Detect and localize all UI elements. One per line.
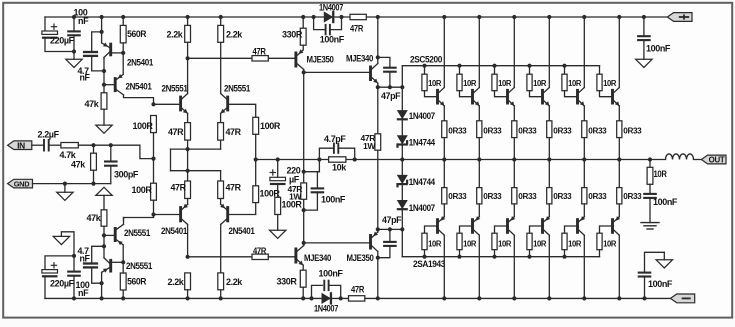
svg-text:47R: 47R — [226, 183, 242, 193]
ground symbol (above R18, points up) — [96, 187, 112, 195]
svg-text:2N5401: 2N5401 — [127, 57, 153, 67]
resistor R20 100R (feedback lower) — [253, 160, 281, 203]
ground symbol (bottom left, jogged) — [53, 232, 74, 256]
svg-text:1N4007: 1N4007 — [409, 111, 435, 121]
svg-text:2N5551: 2N5551 — [126, 261, 152, 271]
wire Q1 emitter to +rail — [100, 15, 104, 34]
wire diff pair tail links — [171, 149, 221, 181]
resistor 0R33 (bottom emitter 3) — [512, 160, 537, 217]
svg-text:OUT: OUT — [709, 156, 725, 165]
svg-text:10R: 10R — [428, 238, 442, 248]
svg-text:0R33: 0R33 — [448, 125, 467, 135]
resistor R5 100R (upper base feed) — [133, 116, 157, 159]
connector GND — [8, 179, 33, 188]
svg-text:0R33: 0R33 — [623, 191, 642, 201]
svg-text:10R: 10R — [428, 78, 442, 88]
svg-text:10R: 10R — [654, 169, 668, 179]
wire Q3 collector to R9 — [188, 57, 252, 59]
svg-text:10k: 10k — [332, 163, 347, 173]
resistor R6 100R (lower base feed) — [124, 159, 157, 221]
resistor R12 47R (diff emitter lower) — [171, 181, 191, 204]
svg-text:IN: IN — [17, 140, 25, 150]
ground symbol (top left) — [66, 52, 82, 68]
resistor 10R (bottom base 5) — [562, 226, 582, 259]
resistor R16 47R (to MJE340 base) — [252, 246, 295, 260]
svg-text:1N4007: 1N4007 — [409, 203, 435, 213]
svg-text:47k: 47k — [85, 99, 100, 109]
node bottom CCS junctions — [102, 233, 125, 264]
resistor R23 47R 1W (VAS) — [288, 183, 307, 202]
capacitor C4 2.2uF input coupling — [38, 130, 60, 152]
svg-text:100nF: 100nF — [646, 43, 671, 53]
transistor Q5 2N5401 (input pair lower) — [154, 204, 189, 257]
svg-text:100nF: 100nF — [319, 269, 344, 279]
resistor 0R33 (top emitter 5) — [582, 121, 607, 162]
resistor 10R (bottom base 3) — [492, 226, 512, 259]
capacitor C5 300pF — [104, 145, 139, 183]
resistor 0R33 (bottom emitter 1) — [442, 160, 467, 217]
svg-text:47R: 47R — [226, 127, 242, 137]
resistor R28 47R (bottom rail) — [349, 285, 365, 301]
node top-left decoupling junctions — [72, 15, 76, 54]
wire 220uF C17 branch — [45, 256, 74, 299]
svg-text:0R33: 0R33 — [588, 125, 607, 135]
svg-text:100R: 100R — [132, 185, 153, 195]
wire bottom output base rail — [402, 256, 599, 258]
ground symbol (input) — [57, 184, 73, 201]
wire MJE340 emitter node — [376, 85, 405, 89]
transistor 2SA1943 output 6 — [611, 216, 621, 300]
resistor R21 100R (feedback shunt) — [275, 185, 303, 230]
svg-text:nF: nF — [78, 16, 89, 26]
svg-text:nF: nF — [78, 288, 89, 298]
capacitor C12 100nF (across D1) — [314, 17, 345, 44]
transistor Q8 2N5551 (bottom current source) — [102, 246, 153, 283]
svg-text:MJE340: MJE340 — [304, 253, 331, 263]
svg-text:220µF: 220µF — [50, 278, 75, 288]
svg-text:47k: 47k — [71, 159, 86, 169]
connector negative supply - — [671, 294, 695, 303]
diode D1 1N4007 (top rail) — [312, 3, 344, 24]
earth ground (zobel) — [641, 223, 659, 229]
resistor R3 4.7k (input series) — [60, 143, 79, 161]
capacitor C3 4.7nF (top CCS) — [78, 32, 105, 83]
svg-text:2N5551: 2N5551 — [224, 83, 250, 93]
svg-text:47R: 47R — [351, 285, 365, 295]
svg-text:10R: 10R — [498, 78, 512, 88]
svg-text:2SA1943: 2SA1943 — [413, 259, 445, 269]
svg-text:0R33: 0R33 — [518, 191, 537, 201]
transistor Q11 MJE340 (driver lower) — [294, 243, 331, 270]
resistor R25 47R 1W (driver emitters) — [361, 87, 381, 229]
wire output / feedback rail — [256, 159, 666, 161]
svg-text:1N4007: 1N4007 — [319, 3, 343, 13]
resistor R24 330R (MJE350 emitter) — [282, 15, 306, 45]
capacitor C9 100nF (across R23) — [304, 160, 346, 211]
wire bias chain vertical — [400, 66, 404, 257]
wire ground line — [33, 182, 111, 186]
svg-text:0R33: 0R33 — [448, 191, 467, 201]
resistor 10R (top base 6) — [597, 66, 617, 97]
wire Q8 emitter to -rail — [100, 281, 104, 300]
wire 220uF C1 branch — [45, 17, 74, 52]
resistor R13 47R (diff emitter lower) — [218, 181, 242, 204]
transistor 2SA1943 output 2 — [471, 216, 481, 300]
svg-text:220µF: 220µF — [50, 36, 75, 46]
svg-text:nF: nF — [80, 73, 91, 83]
resistor R19 100R (feedback upper) — [253, 117, 281, 159]
wire bottom negative supply rail — [45, 297, 671, 299]
resistor 0R33 (top emitter 2) — [477, 121, 502, 162]
svg-text:1N4744: 1N4744 — [409, 137, 435, 147]
svg-text:100nF: 100nF — [653, 197, 678, 207]
svg-text:560R: 560R — [127, 29, 147, 39]
connector positive supply + — [667, 13, 692, 22]
resistor R15 2.2k (load lower) — [218, 273, 244, 301]
svg-text:47R: 47R — [253, 47, 267, 57]
diode D5 1N4744 zener (bias) — [396, 175, 435, 188]
svg-text:560R: 560R — [127, 277, 147, 287]
svg-text:100nF: 100nF — [320, 34, 345, 44]
ground symbol (bottom right) — [656, 252, 672, 268]
capacitor C18 100nF (bottom left) — [67, 256, 90, 299]
svg-text:0R33: 0R33 — [588, 191, 607, 201]
wire C4 to R3 — [50, 144, 61, 146]
node bottom-left decoupling junction — [72, 254, 76, 258]
connector OUT — [701, 155, 726, 165]
capacitor C2 100nF (top left) — [67, 8, 89, 52]
svg-text:1N4007: 1N4007 — [314, 304, 338, 314]
svg-text:0R33: 0R33 — [483, 191, 502, 201]
transistor Q12 MJE350 (driver lower) — [304, 229, 380, 300]
resistor R2 47k (CCS bias) — [85, 93, 107, 125]
svg-text:100nF: 100nF — [648, 279, 673, 289]
capacitor C7 220uF (feedback shunt) — [270, 160, 301, 186]
svg-text:10R: 10R — [603, 78, 617, 88]
resistor 10R (bottom base 2) — [457, 226, 477, 259]
transistor Q9 MJE350 (driver) — [294, 45, 333, 72]
capacitor C16 100nF (bottom right decoupling) — [638, 252, 673, 300]
inductor L1 (output) — [666, 154, 702, 160]
resistor 0R33 (top emitter 6) — [617, 121, 642, 162]
resistor R4 47k (input shunt) — [71, 145, 96, 183]
resistor R14 2.2k (load lower) — [168, 255, 191, 301]
svg-text:0R33: 0R33 — [553, 125, 572, 135]
svg-text:MJE350: MJE350 — [347, 253, 374, 263]
transistor 2SC5200 output 2 — [471, 15, 481, 123]
diode D3 1N4007 (bias) — [397, 110, 435, 121]
resistor R1 560R — [120, 15, 147, 53]
svg-text:2N5551: 2N5551 — [124, 228, 150, 238]
resistor 0R33 (bottom emitter 2) — [477, 160, 502, 217]
svg-text:2N5401: 2N5401 — [229, 226, 255, 236]
resistor R10 47R (diff emitter) — [168, 123, 191, 181]
wire IN to C4 — [32, 144, 43, 146]
resistor 0R33 (top emitter 4) — [547, 121, 572, 162]
diode D4 1N4744 zener (bias) — [396, 135, 435, 147]
svg-text:10R: 10R — [498, 238, 512, 248]
transistor 2SA1943 output 3 — [506, 216, 516, 300]
svg-text:100R: 100R — [133, 121, 154, 131]
wire Q5 collector to R16 — [188, 256, 252, 258]
resistor 0R33 (bottom emitter 4) — [547, 160, 572, 217]
transistor Q4 2N5551 (input pair) — [221, 42, 256, 122]
resistor 0R33 (bottom emitter 6) — [617, 160, 642, 217]
ground symbol (top right) — [636, 59, 652, 67]
transistor Q1 2N5401 (top current source) — [102, 32, 154, 71]
svg-text:2N5401: 2N5401 — [161, 226, 187, 236]
svg-text:1W: 1W — [363, 141, 376, 151]
svg-text:2.2k: 2.2k — [226, 30, 243, 40]
resistor R7 2.2k (load) — [167, 15, 191, 61]
capacitor C8 4.7pF (across R22) — [319, 134, 354, 160]
transistor 2SC5200 output 3 — [506, 15, 516, 123]
resistor 10R (top base 3) — [492, 64, 512, 97]
ground symbol (feedback shunt) — [270, 230, 286, 238]
diode D6 1N4007 (bias) — [397, 200, 435, 213]
svg-text:4.7pF: 4.7pF — [324, 134, 346, 144]
capacitor C11 47pF (MJE350 lower) — [378, 215, 402, 258]
ground symbol (under R2) — [96, 125, 112, 133]
node junction dots bottom rail — [72, 296, 76, 300]
svg-text:10R: 10R — [603, 238, 617, 248]
transistor 2SC5200 output 5 — [576, 15, 586, 123]
svg-text:MJE350: MJE350 — [307, 54, 334, 64]
resistor 0R33 (bottom emitter 5) — [582, 160, 607, 217]
svg-text:10R: 10R — [533, 238, 547, 248]
transistor Q3 2N5551 (input pair) — [151, 58, 187, 122]
resistor 10R (top base 2) — [457, 64, 477, 97]
transistor Q2 2N5401 (top current source) — [104, 53, 154, 104]
capacitor C10 47pF (MJE340) — [378, 57, 401, 101]
svg-text:0R33: 0R33 — [553, 191, 572, 201]
resistor R26 330R (lower driver) — [277, 270, 307, 300]
transistor 2SA1943 output 4 — [541, 216, 551, 300]
transistor Q7 2N5551 (bottom current source) — [104, 218, 150, 263]
capacitor C1 220uF electrolytic (top left) — [42, 24, 75, 46]
resistor 0R33 (top emitter 3) — [512, 121, 537, 162]
transistor 2SC5200 output 6 — [611, 15, 621, 123]
transistor Q6 2N5401 (input pair lower) — [220, 203, 256, 273]
svg-text:2SC5200: 2SC5200 — [410, 55, 442, 65]
resistor 10R (top base 1) — [422, 64, 442, 97]
resistor R18 47k (bottom CCS bias) — [87, 195, 107, 226]
svg-text:2.2k: 2.2k — [168, 277, 185, 287]
node CCS junctions — [102, 51, 125, 87]
resistor 0R33 (top emitter 1) — [442, 121, 467, 162]
resistor R29 10R (zobel) — [647, 157, 667, 184]
svg-text:47R: 47R — [350, 23, 364, 33]
svg-text:47pF: 47pF — [382, 215, 402, 225]
svg-text:300pF: 300pF — [114, 169, 139, 179]
svg-text:10R: 10R — [463, 78, 477, 88]
svg-text:0R33: 0R33 — [623, 125, 642, 135]
svg-text:0R33: 0R33 — [483, 125, 502, 135]
svg-text:nF: nF — [80, 254, 91, 264]
transistor 2SA1943 output 5 — [576, 216, 586, 300]
resistor R27 47R (top rail) — [350, 14, 366, 33]
svg-text:10R: 10R — [463, 238, 477, 248]
capacitor C6 4.7nF (bottom CCS) — [78, 246, 105, 283]
svg-text:2.2k: 2.2k — [226, 277, 243, 287]
svg-text:47R: 47R — [253, 246, 267, 256]
resistor R8 2.2k (load) — [218, 15, 244, 42]
svg-text:330R: 330R — [277, 277, 298, 287]
svg-text:2.2µF: 2.2µF — [38, 130, 60, 140]
wire input line to base node — [78, 143, 155, 161]
wire MJE350 emitter node lower — [376, 227, 405, 231]
capacitor C13 100nF (across D2) — [312, 269, 344, 299]
capacitor C14 100nF (top right decoupling) — [637, 15, 671, 59]
resistor 10R (top base 5) — [562, 64, 582, 97]
resistor 10R (bottom base 6) — [597, 226, 617, 257]
svg-text:0R33: 0R33 — [518, 125, 537, 135]
resistor R17 560R (bottom) — [120, 262, 147, 300]
svg-text:10R: 10R — [568, 78, 582, 88]
svg-text:1W: 1W — [289, 191, 302, 201]
resistor 10R (top base 4) — [527, 64, 547, 97]
capacitor C17 220uF electrolytic (bottom left) — [42, 262, 75, 288]
svg-text:2.2k: 2.2k — [167, 30, 184, 40]
wire top positive supply rail — [45, 16, 667, 18]
diode D2 1N4007 (bottom rail) — [309, 292, 342, 314]
node junction dots on rails — [254, 157, 357, 161]
svg-text:47pF: 47pF — [381, 91, 401, 101]
svg-text:330R: 330R — [282, 30, 303, 40]
resistor R22 10k (feedback) — [329, 157, 348, 173]
svg-text:2N5401: 2N5401 — [126, 81, 152, 91]
svg-text:47R: 47R — [168, 127, 184, 137]
svg-text:10R: 10R — [568, 238, 582, 248]
svg-text:2N5551: 2N5551 — [162, 83, 188, 93]
wire top output base rail — [402, 65, 599, 67]
svg-text:1N4744: 1N4744 — [409, 177, 435, 187]
transistor 2SC5200 output 4 — [541, 15, 551, 123]
transistor Q10 MJE340 (driver) — [304, 15, 380, 87]
resistor R11 47R (diff emitter) — [218, 123, 242, 150]
svg-text:MJE340: MJE340 — [346, 53, 373, 63]
svg-text:47R: 47R — [171, 183, 187, 193]
svg-text:100R: 100R — [260, 121, 281, 131]
capacitor C15 100nF (zobel) — [643, 184, 678, 222]
transistor 2SA1943 output 1 — [436, 216, 446, 300]
svg-text:47k: 47k — [87, 213, 102, 223]
transistor 2SC5200 output 1 — [436, 15, 446, 123]
svg-text:100nF: 100nF — [321, 194, 346, 204]
resistor 10R (bottom base 4) — [527, 226, 547, 259]
wire VAS bus vertical — [302, 70, 306, 245]
resistor R9 47R (to MJE350 base) — [252, 47, 295, 61]
resistor 10R (bottom base 1) — [422, 226, 442, 259]
svg-text:10R: 10R — [533, 78, 547, 88]
svg-text:GND: GND — [14, 180, 30, 189]
connector IN — [8, 140, 32, 150]
